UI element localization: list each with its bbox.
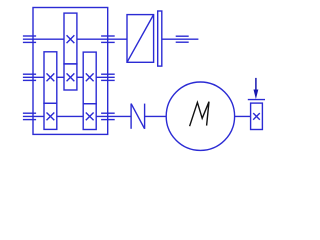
shaft III segment C2 to coupling xyxy=(96,115,131,117)
sprocket stop cap xyxy=(248,99,265,101)
shaft III segment A2 to C2 xyxy=(57,115,83,117)
shaft I right segment to brake xyxy=(77,38,127,40)
fixed-joint cross gear B2 xyxy=(67,73,75,81)
bearing right wall shaft II xyxy=(101,74,115,80)
bearing left wall shaft I xyxy=(23,36,36,42)
bearing left wall shaft II xyxy=(23,74,36,80)
brake diagonal xyxy=(127,15,154,63)
brake anchor shaft xyxy=(162,38,199,40)
gearbox housing frame xyxy=(33,8,108,135)
fixed-joint cross sprocket xyxy=(253,113,260,120)
gear wheel B1 on shaft I (second stage) xyxy=(64,13,77,64)
gear pinion A2 on shaft III (first stage, left) xyxy=(44,103,57,129)
brake anchor support dashes xyxy=(176,36,189,42)
fixed-joint cross gear B1 xyxy=(67,35,75,43)
motor circle xyxy=(166,82,234,150)
coupling between gearbox and motor xyxy=(131,104,145,129)
fixed-joint cross gear C1 xyxy=(86,73,94,81)
fixed-joint cross gear A1 xyxy=(47,73,55,81)
shaft III segment wall to pinion A2 xyxy=(23,115,44,117)
shaft I left segment xyxy=(23,38,64,40)
bearing right wall shaft III xyxy=(101,113,115,119)
gear pinion B2 on shaft II (second stage) xyxy=(64,64,77,90)
fixed-joint cross gear C2 xyxy=(86,113,94,121)
gear wheel C1 on shaft II (first stage, right) xyxy=(83,52,96,104)
motor shaft left xyxy=(145,115,167,117)
shaft II segment A1 to B2 xyxy=(57,76,64,78)
bearing right wall shaft I xyxy=(101,36,115,42)
gear wheel A1 on shaft II (first stage, left) xyxy=(44,52,57,104)
fixed-joint cross gear A2 xyxy=(47,113,55,121)
force arrow above sprocket xyxy=(254,78,259,99)
shaft II segment C1 to wall xyxy=(96,76,115,78)
motor shaft right xyxy=(235,115,251,117)
gear pinion C2 on shaft III (first stage, right) xyxy=(83,104,96,130)
sprocket on motor shaft xyxy=(251,103,263,129)
motor letter M xyxy=(190,102,209,127)
brake disc bar xyxy=(158,11,162,66)
bearing left wall shaft III xyxy=(23,113,36,119)
shaft II segment wall to gear A1 xyxy=(23,76,44,78)
brake electromagnet body xyxy=(127,15,154,63)
shaft II segment B2 to C1 xyxy=(77,76,83,78)
